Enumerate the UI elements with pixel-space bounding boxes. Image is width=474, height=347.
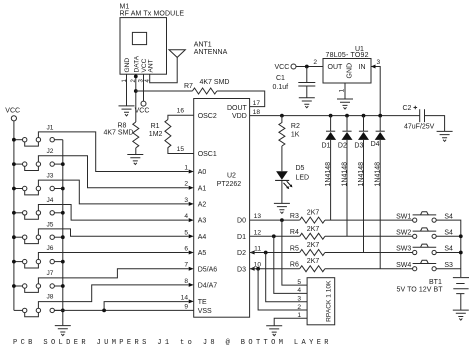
power VCC at U1 [275, 64, 297, 71]
wire OSC1 pin15 [168, 148, 194, 154]
svg-text:VCC: VCC [135, 107, 150, 114]
svg-text:U2: U2 [227, 172, 236, 179]
wire D1 row [250, 235, 300, 237]
svg-text:9: 9 [184, 304, 188, 311]
svg-text:12: 12 [254, 229, 262, 236]
junction bus J3 [61, 187, 65, 191]
svg-text:14: 14 [181, 294, 189, 301]
svg-text:8: 8 [184, 278, 188, 285]
svg-text:A5: A5 [198, 250, 207, 257]
svg-text:D1: D1 [237, 234, 246, 241]
svg-text:4K7 SMD: 4K7 SMD [104, 130, 134, 137]
wire VSS row [54, 309, 193, 311]
ground C2 [437, 131, 453, 141]
svg-text:2: 2 [313, 59, 317, 66]
junction rail J3 [12, 187, 16, 191]
svg-text:D3: D3 [237, 266, 246, 273]
wire M1 pin2 DATA down [135, 74, 137, 122]
pin arrow D4/A7 [189, 283, 194, 287]
power VCC at M1 [135, 101, 150, 114]
svg-text:VSS: VSS [198, 308, 212, 315]
svg-text:1M2: 1M2 [149, 131, 163, 138]
svg-text:J1: J1 [47, 124, 54, 131]
pin arrow IN [371, 65, 376, 69]
svg-text:D4: D4 [371, 141, 380, 148]
junction bus J7 [61, 284, 65, 288]
junction rail J7 [12, 284, 16, 288]
svg-text:S4: S4 [444, 246, 453, 253]
wire J2 to pin 2 [38, 156, 188, 188]
jumper J3 [14, 173, 63, 195]
ground M1 pin1 [119, 106, 135, 116]
wire ground bus [62, 140, 64, 326]
svg-text:R8: R8 [118, 123, 127, 130]
wire R4 to SW2 [325, 235, 413, 237]
svg-text:13: 13 [254, 213, 262, 220]
svg-text:16: 16 [177, 108, 185, 115]
svg-text:2: 2 [297, 304, 301, 311]
pin arrow A2 [189, 202, 194, 206]
jumper J1 [14, 124, 63, 146]
svg-text:47uF/25V: 47uF/25V [404, 124, 435, 131]
svg-text:A0: A0 [198, 169, 207, 176]
ground U1 [337, 99, 353, 109]
svg-text:4: 4 [184, 213, 188, 220]
svg-text:S3: S3 [444, 262, 453, 269]
wire U1 IN pin3 to rail [371, 67, 380, 116]
svg-text:J4: J4 [47, 197, 54, 204]
junction D3 [362, 114, 366, 118]
jumper J2 [14, 148, 63, 170]
svg-text:6: 6 [184, 246, 188, 253]
wire J7 to pin 7 [38, 269, 188, 284]
wire J6 to pin 6 [38, 253, 188, 260]
svg-text:1K: 1K [291, 132, 300, 139]
resistor R6 [290, 258, 325, 272]
resistor R7 [184, 79, 229, 94]
svg-text:J3: J3 [47, 173, 54, 180]
svg-text:LED: LED [296, 175, 310, 182]
wire J8 to pin 8 [38, 285, 188, 308]
wire R2 to LED [281, 146, 283, 171]
svg-text:GND: GND [347, 63, 354, 79]
svg-text:4K7 SMD: 4K7 SMD [200, 79, 230, 86]
jumper J5 [14, 222, 63, 244]
svg-text:J6: J6 [47, 245, 54, 252]
svg-text:PCB SOLDER JUMPERS J1 to J8 @: PCB SOLDER JUMPERS J1 to J8 @ BOTTOM LAY… [13, 339, 329, 347]
diode D4 [371, 116, 386, 269]
resistor R8 [104, 122, 139, 148]
svg-text:GND: GND [124, 58, 131, 73]
pin arrow D2 [250, 251, 255, 255]
pin arrow A5 [189, 251, 194, 255]
pin arrow A4 [189, 234, 194, 238]
svg-text:3: 3 [184, 197, 188, 204]
wire RPACK pin1 to ground [274, 318, 307, 325]
svg-text:SW1: SW1 [396, 213, 411, 220]
jumper J6 [14, 245, 63, 268]
junction D4 [378, 114, 382, 118]
svg-text:OSC1: OSC1 [198, 151, 217, 158]
capacitor C1 [273, 67, 316, 98]
svg-text:ANT: ANT [147, 59, 154, 72]
svg-text:1N4148: 1N4148 [342, 162, 349, 187]
ground below R8 [127, 155, 143, 165]
svg-text:C1: C1 [276, 75, 285, 82]
svg-text:S4: S4 [444, 230, 453, 237]
svg-text:5: 5 [184, 229, 188, 236]
svg-text:BT1: BT1 [429, 279, 442, 286]
junction bus J8 [61, 309, 65, 313]
ground battery [453, 310, 469, 320]
RF module M1 [120, 4, 185, 75]
svg-text:S4: S4 [444, 213, 453, 220]
svg-text:J8: J8 [47, 294, 54, 301]
svg-text:J5: J5 [47, 222, 54, 229]
pin arrow A0 [189, 170, 194, 174]
svg-text:1: 1 [184, 165, 188, 172]
svg-text:D4/A7: D4/A7 [198, 283, 218, 290]
svg-text:4: 4 [297, 287, 301, 294]
regulator U1 78L05 [323, 46, 371, 83]
resistor R1 [149, 120, 171, 148]
wire U1 GND pin1 [344, 83, 346, 99]
svg-text:R5: R5 [290, 245, 299, 252]
pin arrow A1 [189, 186, 194, 190]
wire SW1 to battery rail [436, 220, 461, 277]
junction rail J6 [12, 260, 16, 264]
wire SW3 to rail [436, 252, 461, 254]
wire D0 row [250, 219, 300, 221]
svg-text:PT2262: PT2262 [217, 181, 242, 188]
junction D1 branch [272, 234, 276, 238]
wire C2 to ground [425, 116, 445, 132]
junction D3 branch [256, 267, 260, 271]
svg-text:RPACK 1 10K: RPACK 1 10K [326, 280, 333, 322]
jumper J4 [14, 197, 63, 219]
resistor R3 [290, 210, 325, 224]
svg-text:OUT: OUT [328, 64, 344, 71]
svg-text:SW3: SW3 [396, 246, 411, 253]
svg-text:1: 1 [338, 89, 345, 93]
LED D5 [275, 165, 309, 189]
junction D1 [329, 114, 333, 118]
svg-text:ANT1: ANT1 [194, 41, 212, 48]
battery BT1 [397, 278, 470, 294]
svg-text:VDD: VDD [232, 113, 247, 120]
wire M1 pin4 to antenna [150, 57, 178, 82]
junction D0 branch [280, 218, 284, 222]
junction bus J4 [61, 211, 65, 215]
svg-text:D5/A6: D5/A6 [198, 266, 218, 273]
capacitor C2 [403, 105, 435, 131]
wire LED to ground [281, 180, 283, 203]
junction rail J5 [12, 235, 16, 239]
resistor R4 [290, 226, 325, 240]
switch SW2 [396, 228, 453, 239]
wire D3 row [250, 268, 300, 270]
wire OSC2 pin16 [168, 115, 194, 119]
svg-text:0.1uf: 0.1uf [273, 84, 289, 91]
svg-text:A2: A2 [198, 202, 207, 209]
svg-text:5V TO 12V BT: 5V TO 12V BT [397, 287, 444, 294]
wire D2 row [250, 252, 300, 254]
svg-text:15: 15 [177, 146, 185, 153]
svg-text:R4: R4 [290, 229, 299, 236]
svg-text:3: 3 [377, 59, 381, 66]
svg-text:D5: D5 [296, 165, 305, 172]
power VCC left [5, 108, 20, 121]
svg-text:2K7: 2K7 [307, 258, 320, 265]
pin arrow D3 [250, 267, 255, 271]
diode D3 [354, 116, 369, 253]
wire M1 pin1 to ground [126, 74, 128, 106]
svg-text:RF AM Tx MODULE: RF AM Tx MODULE [120, 10, 185, 17]
junction DATA / R7 [134, 89, 138, 93]
svg-text:17: 17 [253, 100, 261, 107]
resistor R5 [290, 242, 325, 256]
pin arrow A3 [189, 218, 194, 222]
svg-text:11: 11 [254, 246, 261, 253]
svg-text:A3: A3 [198, 218, 207, 225]
svg-text:J2: J2 [47, 148, 54, 155]
svg-text:D3: D3 [354, 143, 363, 150]
svg-text:OSC2: OSC2 [198, 113, 217, 120]
svg-text:A4: A4 [198, 234, 207, 241]
IC U2 PT2262 [194, 99, 250, 318]
junction TE [102, 309, 106, 313]
svg-text:VCC: VCC [275, 64, 290, 71]
junction bus J5 [61, 235, 65, 239]
svg-text:A1: A1 [198, 185, 207, 192]
diode D1 [322, 116, 337, 221]
wire M1 pin3 to VCC [143, 74, 145, 101]
svg-text:1N4148: 1N4148 [358, 162, 365, 187]
svg-text:C2: C2 [403, 105, 412, 112]
resistor pack RPACK 1 10K [307, 278, 335, 325]
svg-text:2K7: 2K7 [307, 226, 320, 233]
pin arrow TE [189, 299, 194, 303]
junction SW3 rail [459, 251, 463, 255]
jumper J7 [14, 270, 63, 292]
ground bus bottom [55, 326, 71, 336]
svg-text:1N4148: 1N4148 [375, 162, 382, 187]
wire SW4 to rail [436, 268, 461, 270]
wire R8 to ground [135, 148, 137, 154]
svg-text:R2: R2 [291, 123, 300, 130]
svg-text:D2: D2 [237, 250, 246, 257]
svg-text:78L05- TO92: 78L05- TO92 [326, 52, 369, 59]
jumper J8 [14, 294, 63, 317]
resistor R2 [279, 116, 300, 146]
pin arrow D5/A6 [189, 267, 194, 271]
switch SW1 [396, 212, 453, 223]
svg-text:7: 7 [184, 262, 188, 269]
svg-text:DATA: DATA [134, 55, 141, 72]
svg-text:R7: R7 [184, 83, 193, 90]
wire J1 to pin 1 [38, 132, 188, 172]
wire battery to ground [460, 294, 462, 310]
junction bus J2 [61, 162, 65, 166]
svg-text:R6: R6 [290, 262, 299, 269]
switch SW4 [396, 260, 453, 271]
wire TE branch [104, 302, 189, 311]
wire D1 to RPACK pin4 [274, 236, 307, 293]
wire SW2 to rail [436, 235, 461, 237]
svg-text:18: 18 [253, 109, 261, 116]
svg-text:IN: IN [359, 64, 366, 71]
svg-text:TE: TE [198, 299, 207, 306]
switch SW3 [396, 244, 453, 255]
junction SW2 rail [459, 234, 463, 238]
ground LED [274, 203, 290, 213]
antenna ANT1 [169, 41, 228, 57]
ground RPACK [266, 326, 282, 336]
junction M1 pin2 [134, 75, 138, 79]
junction D2 branch [264, 251, 268, 255]
wire R3 to SW1 [325, 219, 413, 221]
wire D2 to RPACK pin3 [266, 253, 307, 302]
junction R2 [280, 114, 284, 118]
wire R7 to U2 pin17 [217, 91, 265, 107]
svg-text:2K7: 2K7 [307, 210, 320, 217]
svg-text:DOUT: DOUT [227, 105, 248, 112]
wire VCC rail left [13, 121, 15, 311]
svg-text:R3: R3 [290, 213, 299, 220]
wire J5 to pin 5 [38, 229, 188, 236]
junction C1 [305, 65, 309, 69]
svg-text:D1: D1 [322, 143, 331, 150]
svg-text:ANTENNA: ANTENNA [194, 49, 228, 56]
wire DATA to R7 [136, 90, 193, 92]
wire J3 to pin 3 [38, 180, 188, 204]
wire D3 to RPACK pin2 [258, 269, 307, 310]
wire R6 to SW4 [325, 268, 413, 270]
wire J4 to pin 4 [38, 205, 188, 221]
wire VDD rail [250, 115, 420, 117]
svg-text:1N4148: 1N4148 [325, 162, 332, 187]
junction D2 [345, 114, 349, 118]
wire D0 to RPACK pin5 [282, 220, 307, 285]
junction bus J6 [61, 260, 65, 264]
svg-text:2K7: 2K7 [307, 242, 320, 249]
svg-text:SW4: SW4 [396, 262, 411, 269]
wire R5 to SW3 [325, 252, 413, 254]
svg-text:D0: D0 [237, 218, 246, 225]
ground C1 [299, 98, 315, 108]
svg-text:SW2: SW2 [396, 230, 411, 237]
junction rail J4 [12, 211, 16, 215]
svg-text:R1: R1 [151, 123, 160, 130]
svg-text:2: 2 [184, 181, 188, 188]
svg-text:3: 3 [297, 296, 301, 303]
diode D2 [338, 116, 353, 237]
svg-text:VCC: VCC [5, 108, 20, 115]
svg-text:5: 5 [297, 279, 301, 286]
junction rail J2 [12, 162, 16, 166]
svg-text:J7: J7 [47, 270, 54, 277]
svg-text:D2: D2 [338, 143, 347, 150]
wire VCC to U1 OUT pin2 [296, 66, 323, 68]
junction rail J1 [12, 138, 16, 142]
